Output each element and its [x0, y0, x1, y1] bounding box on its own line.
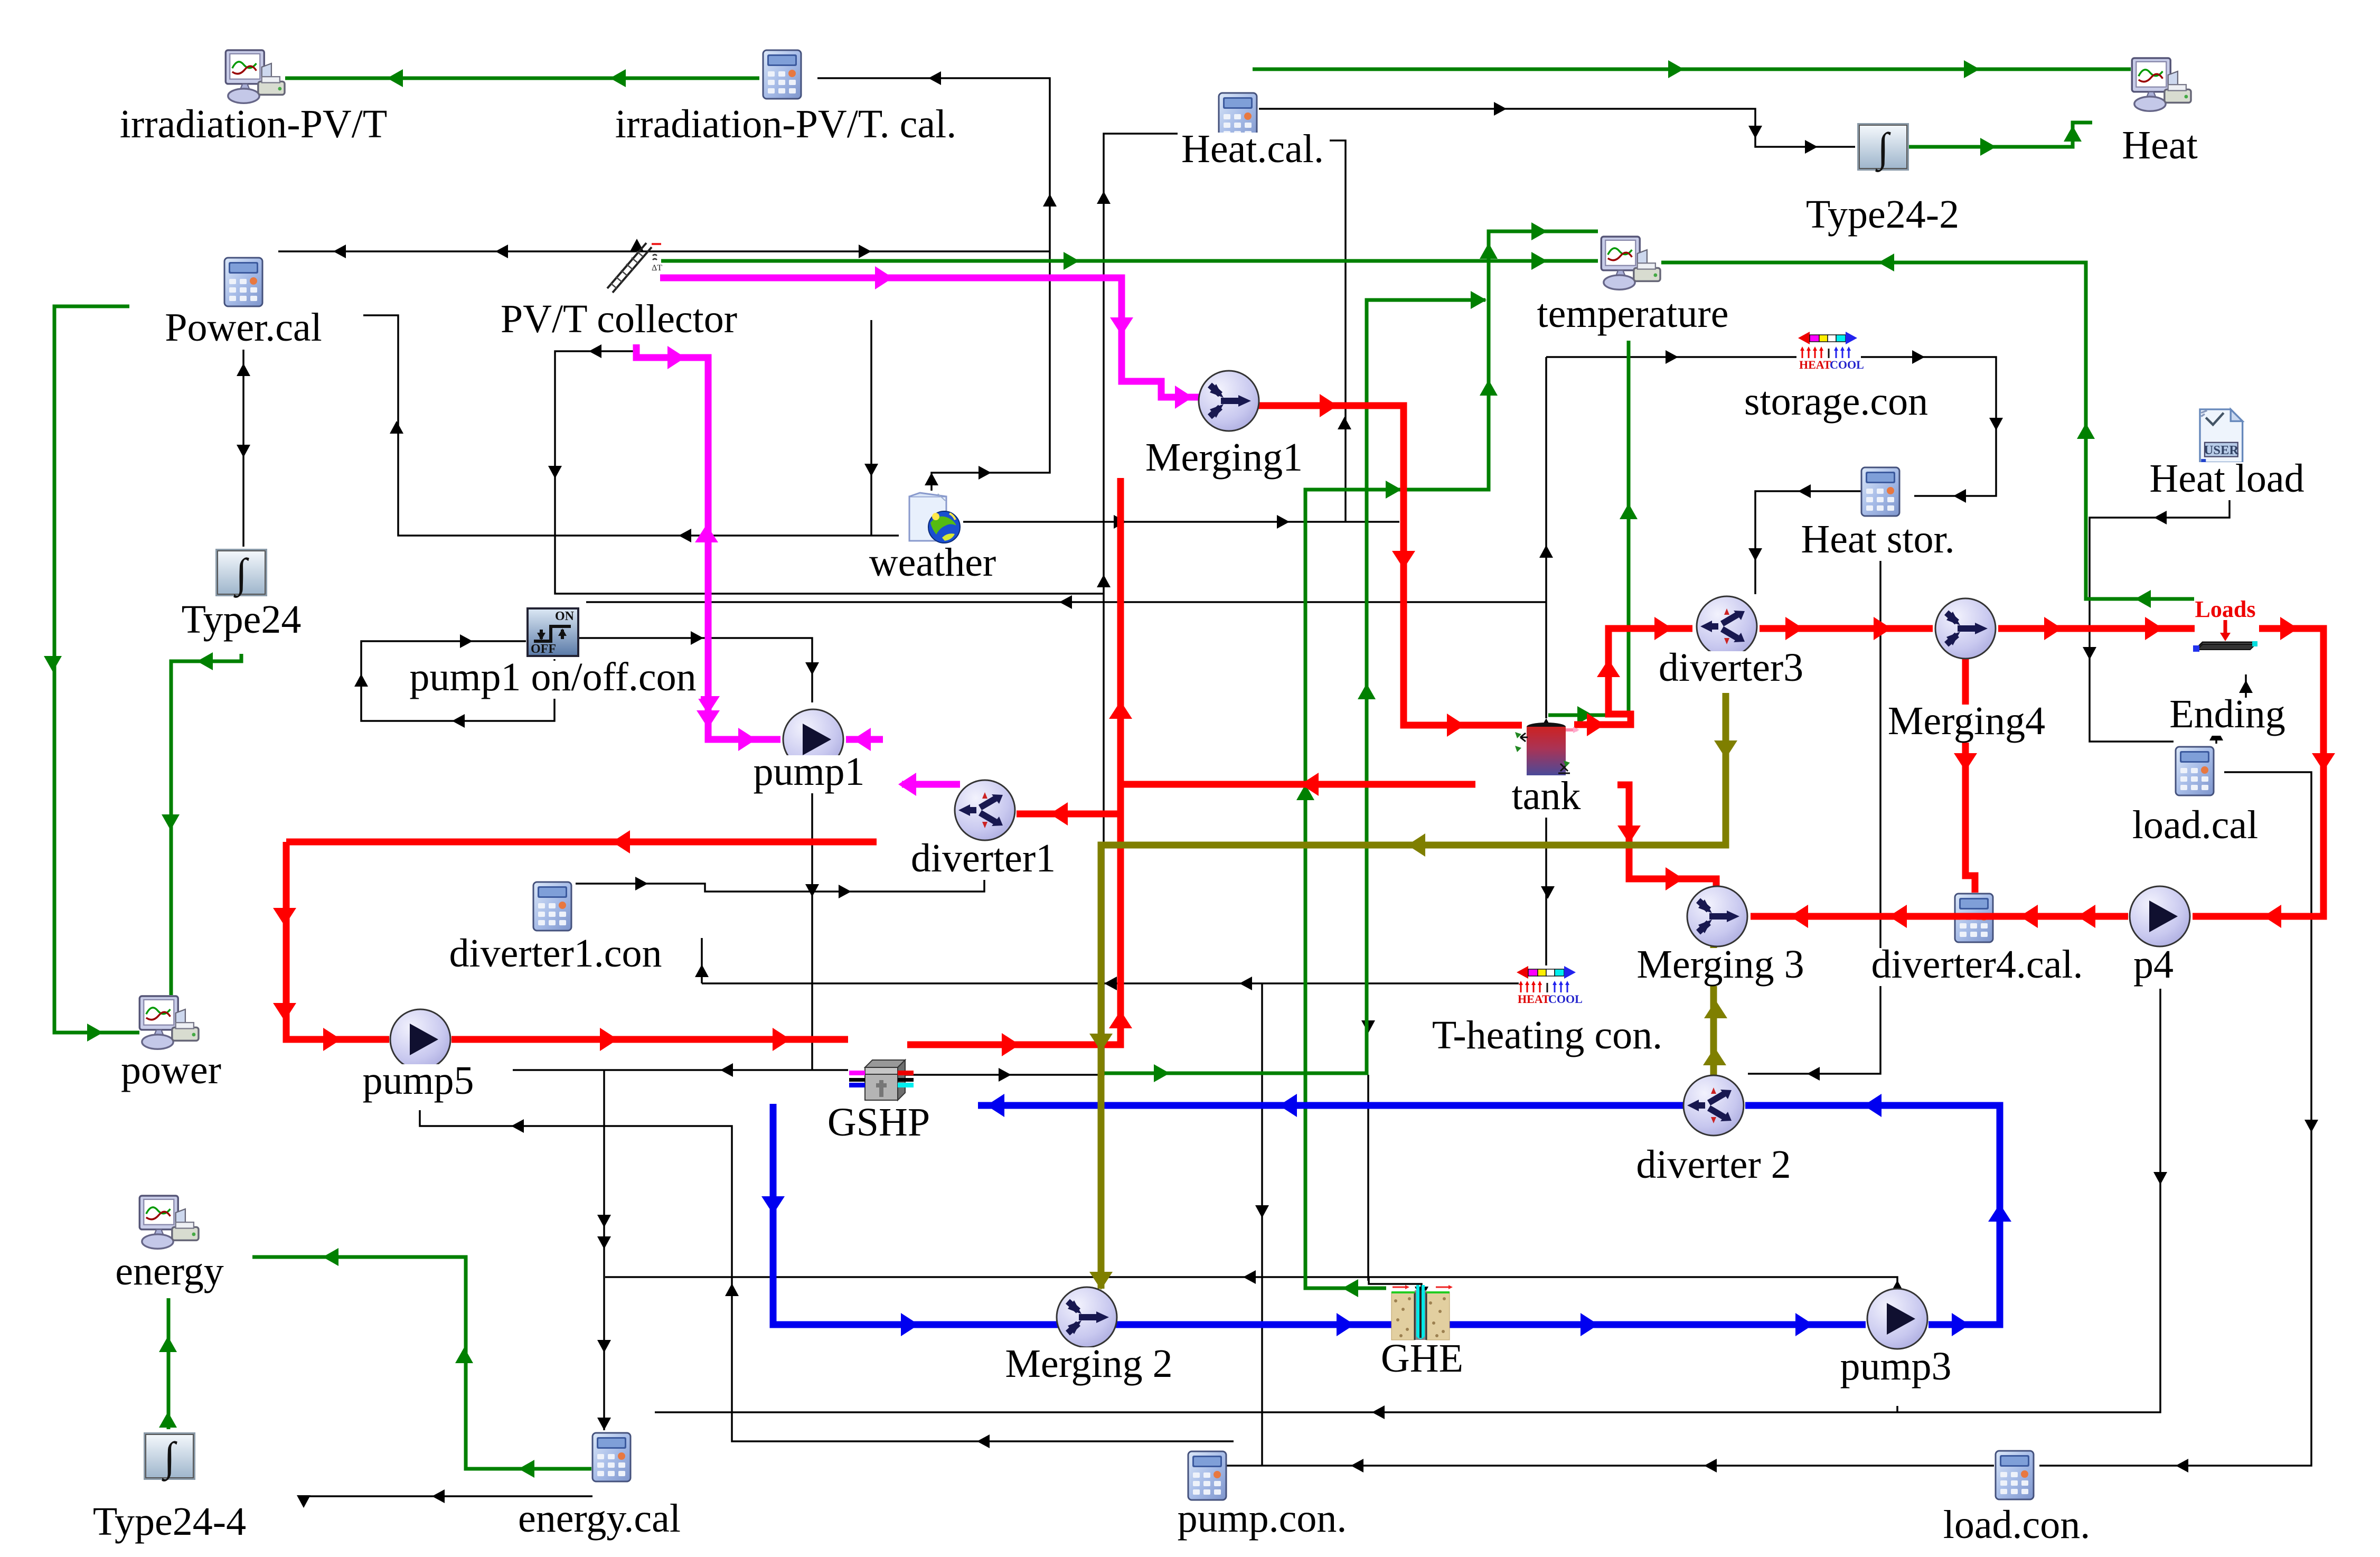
- svg-text:Merging 3: Merging 3: [1636, 942, 1804, 987]
- svg-text:GSHP: GSHP: [827, 1100, 930, 1145]
- svg-text:GHE: GHE: [1381, 1336, 1463, 1381]
- svg-text:diverter1.con: diverter1.con: [449, 931, 662, 976]
- svg-text:pump.con.: pump.con.: [1178, 1496, 1347, 1541]
- svg-text:diverter3: diverter3: [1659, 645, 1803, 690]
- svg-text:Heat.cal.: Heat.cal.: [1181, 127, 1324, 171]
- svg-text:Merging1: Merging1: [1145, 435, 1303, 480]
- svg-text:Ending: Ending: [2169, 692, 2285, 736]
- svg-text:weather: weather: [869, 540, 996, 585]
- svg-text:diverter1: diverter1: [911, 836, 1056, 880]
- svg-text:load.cal: load.cal: [2132, 803, 2258, 847]
- svg-text:pump3: pump3: [1840, 1344, 1951, 1389]
- svg-text:diverter 2: diverter 2: [1636, 1142, 1791, 1187]
- svg-text:Power.cal: Power.cal: [165, 305, 322, 350]
- svg-text:load.con.: load.con.: [1943, 1503, 2091, 1547]
- svg-text:Heat stor.: Heat stor.: [1801, 517, 1954, 561]
- svg-text:power: power: [121, 1048, 221, 1092]
- svg-text:Heat: Heat: [2122, 123, 2197, 167]
- svg-text:Type24: Type24: [182, 597, 302, 642]
- svg-text:Type24-2: Type24-2: [1806, 192, 1959, 237]
- svg-text:storage.con: storage.con: [1744, 379, 1928, 424]
- svg-text:energy: energy: [115, 1249, 223, 1293]
- svg-text:energy.cal: energy.cal: [518, 1496, 681, 1541]
- svg-text:pump5: pump5: [362, 1058, 474, 1103]
- svg-text:PV/T collector: PV/T collector: [501, 297, 737, 341]
- svg-text:pump1 on/off.con: pump1 on/off.con: [409, 655, 696, 699]
- svg-text:irradiation-PV/T. cal.: irradiation-PV/T. cal.: [615, 102, 956, 146]
- svg-text:Type24-4: Type24-4: [93, 1499, 246, 1544]
- svg-text:irradiation-PV/T: irradiation-PV/T: [120, 102, 388, 146]
- svg-text:p4: p4: [2133, 942, 2174, 987]
- svg-text:pump1: pump1: [753, 749, 864, 794]
- svg-text:Heat load: Heat load: [2149, 456, 2304, 501]
- svg-text:Merging 2: Merging 2: [1005, 1342, 1172, 1386]
- svg-text:Merging4: Merging4: [1888, 699, 2045, 743]
- svg-text:T-heating con.: T-heating con.: [1432, 1013, 1662, 1057]
- svg-text:diverter4.cal.: diverter4.cal.: [1871, 942, 2083, 987]
- svg-text:temperature: temperature: [1537, 292, 1729, 336]
- svg-text:tank: tank: [1512, 774, 1581, 818]
